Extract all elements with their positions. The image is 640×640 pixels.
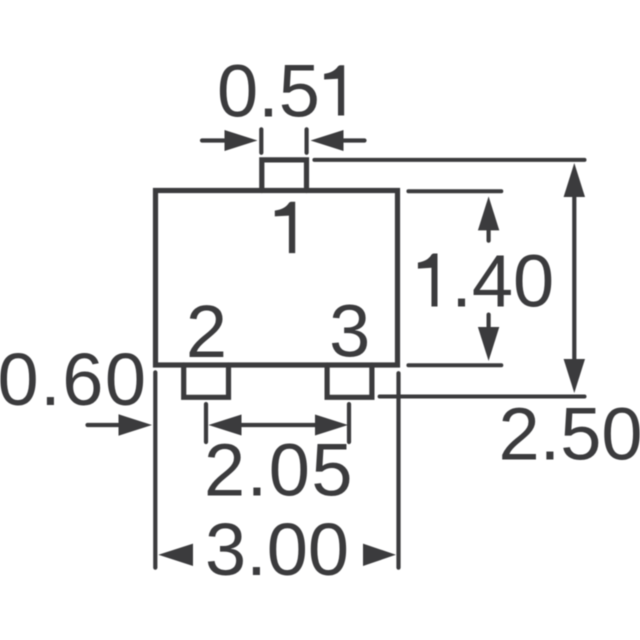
dim 1.40 down arrow — [478, 315, 499, 361]
dim 0.60 arrow pointing right at body-left extension — [88, 414, 153, 435]
pin label 2 — [186, 290, 227, 373]
package body outline — [156, 191, 398, 366]
bottom extension line for 2.50 dimension — [380, 395, 585, 399]
svg-text:2.05: 2.05 — [204, 429, 354, 512]
dim 3.00 left arrowhead — [158, 544, 193, 566]
dim 0.51 right arrow — [311, 130, 365, 151]
top extension line to 2.50 dimension — [314, 158, 584, 162]
dim 1.40 top extension line — [408, 189, 501, 193]
dim 2.05 extension tick left (pin 2 center) — [204, 404, 208, 442]
dim text 2.05 — [204, 429, 354, 512]
dim text 0.51 — [217, 50, 344, 133]
dim text 2.50 — [498, 393, 640, 476]
dim 2.05 extension tick right (pin 3 center) — [347, 404, 351, 442]
dim 0.51 extension tick right — [305, 129, 309, 152]
svg-text:2: 2 — [186, 290, 227, 373]
pin 1 tab (top lead) — [262, 160, 307, 191]
dim 0.51 extension tick left — [259, 129, 263, 152]
dim text 0.60 — [0, 338, 148, 421]
dim 2.50 vertical dimension line with arrows — [564, 163, 585, 393]
pin 2 tab (bottom left lead) — [184, 365, 229, 397]
svg-text:3.00: 3.00 — [205, 508, 349, 591]
svg-text:0.5: 0.5 — [217, 50, 320, 133]
left vertical extension line (body left edge, for 3.00) — [153, 372, 157, 567]
dim 1.40 up arrow — [478, 196, 499, 240]
pin label 1 — [275, 202, 295, 253]
svg-text:3: 3 — [329, 290, 370, 373]
dim 2.05 dimension line with outward arrows — [209, 415, 349, 436]
svg-text:.40: .40 — [451, 240, 554, 323]
dim 1.40 bottom extension line — [408, 363, 501, 367]
dim text 3.00 — [205, 508, 349, 591]
dim 3.00 right arrowhead — [363, 544, 396, 566]
pin label 3 — [329, 290, 370, 373]
pin 3 tab (bottom right lead) — [327, 365, 372, 397]
dim text 1.40 — [418, 240, 554, 323]
dim 0.51 left arrow — [202, 130, 258, 151]
svg-text:2.50: 2.50 — [498, 393, 640, 476]
right vertical extension line (body right edge, for 3.00 / 2.50) — [396, 373, 400, 567]
svg-text:0.60: 0.60 — [0, 338, 148, 421]
